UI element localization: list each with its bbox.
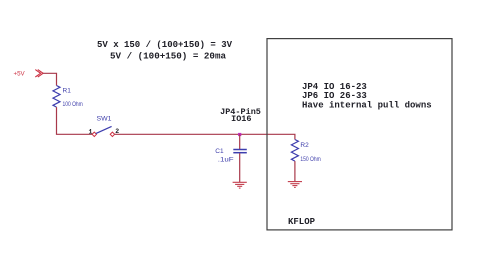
- svg-text:5V / (100+150) = 20ma: 5V / (100+150) = 20ma: [110, 52, 227, 62]
- svg-text:SW1: SW1: [97, 115, 112, 122]
- switch SW1 pin 1 diamond: [92, 132, 96, 136]
- wire R1 to SW1 pin 1: [57, 107, 93, 134]
- ground under R2: [288, 182, 302, 188]
- wire junction to C1 top plate: [239, 134, 241, 149]
- svg-text:150 Ohm: 150 Ohm: [300, 156, 320, 163]
- junction node JP4-Pin5 IO16: [238, 133, 241, 136]
- switch SW1 pin 2 diamond: [110, 132, 114, 136]
- svg-text:Have internal pull downs: Have internal pull downs: [302, 101, 432, 111]
- wire R2 to ground: [294, 161, 296, 181]
- svg-text:1: 1: [89, 128, 93, 135]
- svg-text:5V x 150 / (100+150) = 3V: 5V x 150 / (100+150) = 3V: [97, 40, 233, 50]
- svg-text:.1uF: .1uF: [218, 157, 234, 164]
- power flag chevron symbol: [35, 70, 43, 77]
- ground under C1: [233, 182, 247, 188]
- wire SW1 pin2 to R2: [115, 134, 295, 139]
- svg-text:IO16: IO16: [231, 114, 251, 124]
- svg-text:KFLOP: KFLOP: [288, 217, 316, 227]
- capacitor C1: [233, 150, 247, 153]
- resistor R1: [53, 86, 60, 108]
- switch SW1 lever: [96, 126, 112, 133]
- wire C1 bottom plate to ground: [239, 153, 241, 182]
- svg-text:+5V: +5V: [14, 71, 26, 78]
- svg-text:R2: R2: [300, 142, 309, 149]
- svg-text:R1: R1: [63, 87, 72, 94]
- svg-text:100 Ohm: 100 Ohm: [63, 101, 83, 108]
- resistor R2: [291, 140, 298, 162]
- svg-text:C1: C1: [215, 148, 224, 155]
- wire +5V to corner: [43, 73, 56, 85]
- KFLOP box: [267, 39, 452, 230]
